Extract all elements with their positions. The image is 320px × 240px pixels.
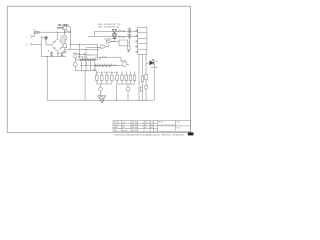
op-amp U1 [106, 36, 114, 43]
transistor Q1 [61, 35, 67, 41]
wire bridge bottom bus [41, 51, 66, 56]
connector J2 body [138, 27, 147, 54]
resistor R11 [133, 72, 135, 84]
wire drop x86 [85, 49, 87, 65]
svg-text:RL1 4k7: RL1 4k7 [78, 53, 87, 56]
svg-text:1.1: 1.1 [150, 121, 153, 124]
wire drop x85.1 to ground bus [84, 71, 86, 100]
junction [79, 44, 80, 45]
wire U1 to K1 [112, 41, 119, 43]
resistor R16 [140, 87, 142, 91]
diode D3 [128, 29, 132, 32]
svg-text:Sh: Sh [145, 123, 147, 126]
wire row B [80, 65, 122, 67]
wire rail 1 [95, 30, 138, 32]
resistor R8 [121, 72, 123, 84]
svg-text:BC547: BC547 [121, 59, 128, 62]
resistor R17 [145, 85, 147, 89]
wire fuse to top rail [34, 32, 70, 36]
transistor Q2 [73, 60, 78, 71]
svg-text:red 2mA: red 2mA [150, 66, 158, 69]
svg-text:03-08-2004 21:33:20: 03-08-2004 21:33:20 [158, 123, 175, 126]
ground bus wire (bottom) [47, 99, 154, 101]
junction [64, 32, 65, 33]
wire row A [78, 59, 98, 61]
transistor Q6 [126, 84, 130, 100]
svg-text:D5 D6 D7: D5 D6 D7 [78, 56, 88, 59]
diode D8 [88, 58, 90, 61]
wire top link y57.2 [100, 57, 121, 62]
wire pin2 to bridge left [33, 43, 42, 45]
connector J1 pin 2 (AC input) [30, 43, 32, 46]
resistor R14 [141, 76, 143, 81]
wire Q1 to R2 [64, 41, 66, 44]
footer logo block [188, 132, 194, 135]
wire mid horizontal y44.3 [71, 43, 98, 45]
wire bridge top to rail [57, 32, 59, 38]
svg-text:Rev: Rev [145, 121, 148, 124]
wire drops rowA to y70.8 [82, 61, 95, 71]
relay K1 [119, 40, 128, 46]
diode D4 [128, 34, 132, 37]
drawing border frame (decorative) [7, 6, 190, 132]
transistor Q4 [127, 46, 131, 50]
junction bus ticks [116, 100, 117, 101]
wire vertical x70.5 [70, 27, 72, 50]
connector J1 pin 1 (AC input) [30, 35, 34, 38]
junction [146, 100, 147, 101]
diode D2 [112, 35, 116, 39]
wire drop x79.6 [79, 44, 81, 58]
transistor Q5 [99, 84, 103, 91]
svg-text:File: File [114, 129, 117, 132]
junction [47, 56, 48, 57]
junction [57, 32, 58, 33]
resistor R3 [96, 72, 98, 84]
diode D15 [109, 64, 111, 67]
wire diode stack vertical [128, 27, 130, 46]
wire drop x116.5 to ground bus [116, 84, 118, 100]
transistor Q3 [122, 62, 129, 67]
svg-text:3-8-04: 3-8-04 [132, 126, 137, 129]
svg-text:ps.sch: ps.sch [122, 129, 127, 132]
diode D13 [102, 64, 104, 67]
svg-text:CA3140: CA3140 [104, 38, 112, 41]
resistor R9 [125, 72, 127, 84]
capacitor C3 (electrolytic) [58, 51, 64, 56]
svg-text:3-8-04: 3-8-04 [132, 123, 137, 126]
connector J2 pin arrows [135, 30, 138, 53]
wire R1 top link [65, 25, 71, 27]
resistor R15 [145, 74, 147, 80]
wire resistor group 2 bus [117, 83, 135, 85]
svg-text:A4: A4 [145, 126, 147, 129]
wire mid horizontal y49.4 [65, 48, 99, 50]
svg-text:7815 +15V BD241C T03: 7815 +15V BD241C T03 [98, 23, 122, 26]
wire rail joint [94, 31, 96, 36]
wire vertical x139 [138, 54, 140, 100]
junction [85, 70, 86, 71]
diode D14 [106, 64, 108, 67]
svg-text:Drawn: Drawn [114, 121, 119, 124]
diode D11 [95, 64, 97, 67]
svg-text:1N4148: 1N4148 [118, 35, 126, 38]
capacitor C2 (electrolytic) [48, 50, 54, 56]
wire LED left [146, 62, 150, 64]
ground (below Q4) [127, 50, 130, 53]
diode D10 [94, 58, 96, 61]
wire R2 down [64, 48, 66, 50]
op-amp U2 [101, 43, 109, 49]
wire mid horizontal y70.8 [75, 70, 97, 72]
svg-text:Drawn: Drawn [158, 121, 163, 124]
ground (below Q1 chain) [63, 49, 67, 53]
diode D1 [112, 30, 116, 34]
LED D16 [150, 59, 155, 65]
diode D9 [91, 58, 93, 61]
wire vertical x97.6 [97, 44, 99, 60]
title block [113, 121, 190, 132]
resistor R5 [106, 72, 108, 84]
svg-text:1/1: 1/1 [150, 123, 153, 126]
junction [142, 100, 143, 101]
resistor R10 [129, 72, 131, 84]
wire vertical x142.5 [142, 54, 144, 100]
wire bridge AC left vertical [40, 36, 42, 57]
capacitor C1 [41, 36, 51, 45]
wire LED right down [152, 63, 155, 100]
wire U2 input [86, 47, 101, 49]
wire vertical x146 [145, 54, 147, 100]
resistor R7 [116, 72, 118, 84]
fuse F1 [34, 31, 39, 33]
svg-text:3-8-04: 3-8-04 [132, 129, 137, 132]
junction [97, 47, 98, 48]
svg-text:Check: Check [114, 123, 119, 126]
diode D6 [83, 58, 85, 61]
svg-text:C:\ElectronicsWorkbench\PowerS: C:\ElectronicsWorkbench\PowerSupply_reg.… [114, 134, 185, 137]
title block text [114, 121, 181, 132]
ground GND (main) [98, 91, 106, 102]
wire rail 2 [88, 35, 138, 37]
svg-text:BD244 0R1: BD244 0R1 [87, 53, 98, 56]
wire resistor group 1 bus [97, 83, 112, 85]
svg-text:4700u: 4700u [65, 30, 71, 33]
resistor R1 [63, 26, 67, 29]
junction [70, 44, 71, 45]
resistor R2 [63, 44, 67, 48]
resistor R4 [101, 72, 103, 84]
svg-text:Title: Title [177, 121, 181, 124]
diode D12 [99, 64, 101, 67]
resistor R6 [111, 72, 113, 84]
svg-text:3-8-04: 3-8-04 [132, 121, 137, 124]
svg-text:R1 0R47: R1 0R47 [58, 24, 69, 27]
wire left long vertical to ground bus [46, 57, 48, 101]
svg-text:7915 -15V BD242C reg: 7915 -15V BD242C reg [98, 25, 120, 28]
diode D7 [85, 58, 87, 61]
junction [85, 49, 86, 50]
junction [139, 100, 140, 101]
bridge rectifier B1 [51, 39, 63, 52]
potentiometer P1 [73, 53, 77, 62]
svg-text:Appr: Appr [114, 126, 118, 129]
svg-text:1N4148: 1N4148 [118, 30, 126, 33]
diode D5 [80, 58, 82, 61]
junction [70, 32, 71, 33]
wire R1 to Q1 [64, 29, 66, 35]
